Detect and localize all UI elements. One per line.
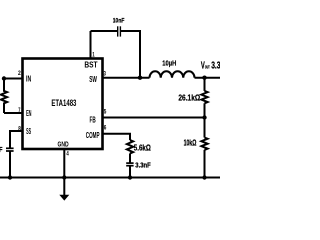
resistor 26.1k feedback upper xyxy=(201,91,207,103)
wire VOUT node down to feedback resistor xyxy=(204,78,206,91)
wire 5.6k to comp cap xyxy=(129,153,131,163)
svg-text:5: 5 xyxy=(104,108,107,115)
svg-text:2: 2 xyxy=(18,70,21,77)
capacitor C 10nF bootstrap left plate xyxy=(117,26,119,36)
svg-text:GND: GND xyxy=(58,141,69,148)
svg-text:6: 6 xyxy=(104,125,107,132)
svg-text:10µH: 10µH xyxy=(162,59,176,68)
node SS-cap ground junction dot xyxy=(8,175,12,179)
svg-text:3.3nF: 3.3nF xyxy=(135,161,151,170)
capacitor soft-start (SS) top plate xyxy=(6,147,14,149)
svg-text:4: 4 xyxy=(66,151,69,158)
wire GND pin to rail xyxy=(63,149,65,178)
wire ground stub below rail xyxy=(63,178,65,196)
svg-text:10kΩ: 10kΩ xyxy=(184,137,197,147)
wire FB pin to divider node xyxy=(103,117,205,119)
wire IN pin to left node xyxy=(4,78,23,80)
wire bootstrap cap to SW node xyxy=(121,31,140,78)
svg-text:8: 8 xyxy=(18,126,21,133)
wire COMP pin xyxy=(103,134,131,140)
wire BST to bootstrap cap xyxy=(91,30,118,32)
ground symbol xyxy=(59,195,69,201)
svg-text:OUT: OUT xyxy=(205,65,210,70)
node FB junction dot xyxy=(202,115,206,119)
svg-text:SS: SS xyxy=(26,127,31,136)
svg-text:7: 7 xyxy=(18,107,20,114)
wire SS pin xyxy=(10,131,23,148)
svg-text:10nF: 10nF xyxy=(113,17,125,24)
resistor 5.6k compensation xyxy=(127,140,133,153)
node VOUT junction dot xyxy=(202,76,206,80)
svg-text:3: 3 xyxy=(104,70,107,77)
wire SS cap to ground rail xyxy=(9,152,11,178)
svg-text:ETA1483: ETA1483 xyxy=(51,98,76,109)
node 10k ground junction dot xyxy=(202,175,206,179)
wire EN pin xyxy=(4,112,23,114)
svg-text:3.3: 3.3 xyxy=(211,60,220,71)
inductor L 10uH xyxy=(150,71,195,77)
svg-text:COMP: COMP xyxy=(86,131,100,140)
svg-text:26.1kΩ: 26.1kΩ xyxy=(178,93,200,103)
wire SW pin xyxy=(103,77,150,79)
wire comp cap to ground rail xyxy=(129,166,131,178)
svg-text:IN: IN xyxy=(26,74,31,83)
capacitor C 10nF bootstrap right plate xyxy=(119,26,121,36)
resistor (IN to EN divider) xyxy=(1,79,7,114)
svg-text:FB: FB xyxy=(90,115,96,124)
IC U1 ETA1483 regulator body xyxy=(23,59,103,150)
wire 10k to ground rail xyxy=(204,150,206,178)
node GND junction dot xyxy=(62,175,66,179)
wire BST pin riser xyxy=(90,31,92,59)
capacitor soft-start (SS) bottom plate xyxy=(6,150,14,152)
svg-text:EN: EN xyxy=(26,109,32,118)
svg-text:SW: SW xyxy=(89,75,97,84)
node comp ground junction dot xyxy=(128,175,132,179)
wire 26.1k to FB node xyxy=(204,103,206,117)
svg-text:BST: BST xyxy=(84,61,97,70)
capacitor 3.3nF compensation bottom plate xyxy=(126,165,133,167)
wire ground rail xyxy=(0,177,220,179)
node SW/BST junction dot xyxy=(138,76,142,80)
wire inductor to VOUT node xyxy=(195,77,221,79)
node IN junction dot xyxy=(2,76,6,80)
capacitor 3.3nF compensation top plate xyxy=(126,162,133,164)
wire FB node to 10k xyxy=(204,118,206,138)
svg-text:5.6kΩ: 5.6kΩ xyxy=(134,142,151,152)
svg-text:1: 1 xyxy=(92,52,95,59)
resistor 10k feedback lower xyxy=(201,138,207,150)
